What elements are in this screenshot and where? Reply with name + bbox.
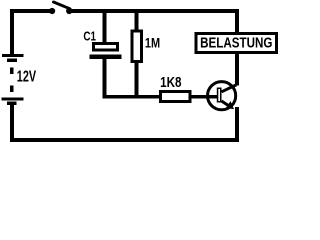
svg-text:1K8: 1K8	[160, 74, 181, 91]
svg-text:12V: 12V	[17, 69, 37, 86]
capacitor C1 polarized	[90, 44, 122, 60]
wire top rail to load box	[235, 9, 239, 33]
resistor R2 1K8	[161, 92, 190, 102]
transistor Q1 NPN	[208, 82, 237, 110]
load box BELASTUNG	[196, 34, 276, 53]
svg-text:1M: 1M	[145, 35, 160, 51]
wire resistor 1M top lead	[134, 11, 138, 31]
wire top rail left segment	[10, 9, 50, 13]
wire capacitor C1 bottom lead	[102, 59, 106, 99]
wire top rail right segment	[70, 9, 239, 13]
svg-text:BELASTUNG: BELASTUNG	[200, 36, 272, 52]
resistor R1 1M	[132, 31, 141, 61]
wire left vertical battery top lead	[10, 9, 14, 54]
battery B1 12V	[2, 54, 24, 105]
wire left vertical battery bottom lead	[10, 105, 14, 142]
wire load box to collector	[235, 54, 239, 86]
svg-text:C1: C1	[83, 28, 96, 43]
wire resistor 1M bottom lead	[134, 63, 138, 99]
wire middle horizontal node to 1K8	[102, 95, 160, 99]
wire emitter to bottom rail	[235, 107, 239, 142]
wire 1K8 to transistor base	[191, 95, 217, 99]
wire bottom rail	[10, 138, 239, 142]
switch S1	[49, 2, 72, 14]
wire capacitor C1 top lead	[102, 11, 106, 43]
